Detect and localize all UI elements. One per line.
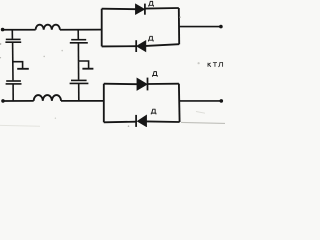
wire (bottom output) — [180, 100, 221, 102]
wire (top box left edge) — [101, 9, 103, 47]
wire (bottom box bottom edge, right of D4) — [147, 120, 180, 123]
capacitor C2 — [6, 81, 22, 84]
wire (mid node down to C2) — [12, 62, 14, 80]
wire (C1 top lead from top rail) — [11, 30, 13, 39]
wire (top rail, L1 to diode box) — [60, 29, 102, 31]
wire (right ground branch) — [79, 61, 89, 68]
wire (top box bottom edge, right of D2) — [146, 44, 179, 46]
diode D1 — [135, 4, 144, 15]
node B (bottom-left input terminal) — [1, 99, 5, 103]
diode D2 cathode bar — [135, 40, 137, 52]
diode D4 — [137, 115, 146, 127]
diode D1 cathode bar — [144, 4, 146, 15]
wire (left ground branch) — [13, 62, 23, 68]
node C (top output terminal) — [219, 25, 223, 29]
wire (top output) — [179, 26, 220, 28]
wire (C3 bottom lead down to mid node) — [77, 43, 79, 61]
capacitor C1 — [5, 39, 21, 42]
wire (bottom box top edge, right of D3) — [148, 83, 179, 85]
wire (bottom rail, L2 to diode box) — [61, 100, 104, 102]
diode D2 — [137, 41, 146, 52]
inductor L1 — [36, 25, 60, 30]
wire (bottom box top edge, left of D3) — [104, 83, 137, 86]
label Д (D1) — [148, 1, 153, 6]
ground (right) — [82, 68, 93, 70]
label Д (D3) — [152, 72, 157, 77]
capacitor C4 — [70, 80, 89, 83]
wire (bottom box left edge) — [103, 84, 105, 123]
diode D4 cathode bar — [135, 115, 137, 127]
wire (mid node down to C4) — [78, 61, 80, 80]
diode D3 cathode bar — [147, 78, 149, 91]
inductor L2 — [34, 95, 61, 101]
wire (bottom rail, terminal to inductor L2) — [3, 100, 34, 102]
wire (C3 top lead from top rail) — [77, 30, 79, 39]
ground (left) — [17, 68, 29, 70]
wire (top box right edge) — [178, 8, 180, 44]
wire (top box top edge, right of D1) — [145, 7, 179, 10]
node D (bottom output terminal) — [220, 99, 224, 103]
label к ТЛ (net name, to transmission line) — [208, 63, 223, 67]
capacitor C3 — [70, 40, 88, 43]
wire (bottom box bottom edge, left of D4) — [104, 121, 136, 124]
wire (C1 bottom lead down to mid node) — [12, 43, 14, 62]
wire (C2 bottom lead to bottom rail) — [12, 84, 14, 100]
diode D3 — [137, 78, 147, 90]
label Д (D4) — [151, 109, 156, 114]
wire (top rail, terminal to inductor L1) — [3, 29, 36, 31]
wire (top box top edge, left of D1) — [102, 8, 136, 11]
node A (top-left input terminal) — [1, 28, 5, 32]
wire (top box bottom edge, left of D2) — [102, 45, 137, 47]
wire (bottom box right edge) — [178, 84, 181, 122]
label Д (D2) — [148, 36, 153, 41]
wire (C4 bottom lead to bottom rail) — [78, 84, 80, 101]
